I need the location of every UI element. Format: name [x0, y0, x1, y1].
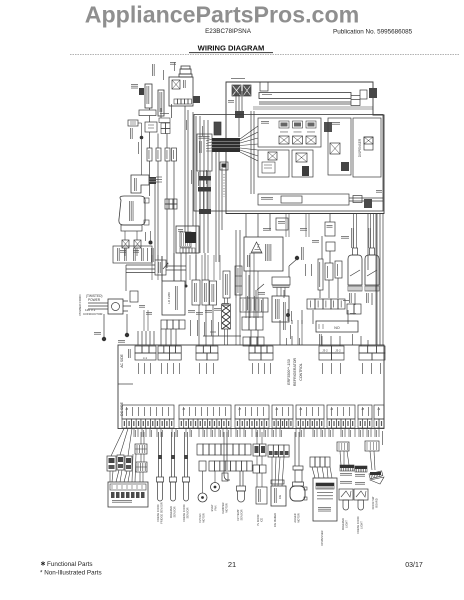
svg-text:FZ TEMP: FZ TEMP	[236, 509, 240, 520]
svg-text:LO FWD: LO FWD	[167, 291, 171, 303]
svg-text:AC SIDE: AC SIDE	[120, 353, 124, 367]
svg-text:DOOR SW: DOOR SW	[371, 496, 375, 509]
svg-text:LIGHT: LIGHT	[345, 520, 349, 528]
svg-text:NO: NO	[334, 326, 340, 330]
svg-text:LIGHT: LIGHT	[360, 521, 364, 529]
svg-text:* Non-Illustrated Parts: * Non-Illustrated Parts	[40, 570, 102, 577]
svg-text:03/17: 03/17	[405, 562, 423, 569]
svg-text:AppliancePartsPros.com: AppliancePartsPros.com	[85, 1, 359, 27]
svg-text:FREEZER: FREEZER	[341, 518, 345, 530]
svg-text:EVAP: EVAP	[210, 504, 214, 511]
svg-text:REFRIGERATOR: REFRIGERATOR	[293, 357, 297, 386]
svg-text:ICE MAKER: ICE MAKER	[273, 513, 277, 527]
svg-text:SENSOR: SENSOR	[186, 507, 190, 518]
svg-text:MOTOR: MOTOR	[202, 513, 206, 523]
svg-text:DAMPER: DAMPER	[221, 502, 225, 513]
svg-text:E23BC78IPSNA: E23BC78IPSNA	[205, 28, 252, 35]
svg-text:POWER CORD: POWER CORD	[78, 294, 82, 316]
svg-text:FRIDGE SENSOR: FRIDGE SENSOR	[160, 502, 164, 524]
svg-text:J3-2: J3-2	[322, 349, 328, 353]
svg-text:ICE: ICE	[278, 495, 282, 500]
svg-text:WIRING DIAGRAM: WIRING DIAGRAM	[198, 44, 265, 53]
svg-text:SENSOR: SENSOR	[240, 509, 244, 520]
svg-text:DISPENSER: DISPENSER	[358, 138, 362, 157]
svg-text:ERF3500**-1S0: ERF3500**-1S0	[287, 359, 291, 385]
svg-text:CONTROL: CONTROL	[299, 363, 303, 381]
svg-text:POWER: POWER	[88, 298, 101, 302]
svg-text:FREEZER: FREEZER	[169, 506, 173, 518]
svg-text:FRESH FOOD: FRESH FOOD	[156, 504, 160, 521]
svg-text:SENSOR: SENSOR	[173, 506, 177, 517]
svg-text:FZ FAN: FZ FAN	[198, 513, 202, 522]
svg-text:FRESH FOOD: FRESH FOOD	[356, 516, 360, 533]
svg-text:Functional Parts: Functional Parts	[47, 561, 93, 568]
svg-text:CONDUCTOR: CONDUCTOR	[83, 312, 103, 316]
svg-text:MOTOR: MOTOR	[225, 503, 229, 513]
svg-text:J-1: J-1	[143, 356, 147, 360]
svg-text:FRESH FOOD: FRESH FOOD	[182, 504, 186, 521]
svg-text:21: 21	[228, 560, 236, 569]
svg-text:MOTOR: MOTOR	[297, 513, 301, 523]
svg-text:J3-2: J3-2	[335, 349, 341, 353]
svg-text:DISPENSER: DISPENSER	[320, 530, 324, 545]
svg-text:ICE: ICE	[260, 518, 264, 523]
svg-text:BOARD: BOARD	[375, 498, 379, 507]
svg-text:FAN: FAN	[214, 505, 218, 510]
svg-text:AUGER: AUGER	[293, 513, 297, 522]
svg-text:Publication No. 5995686085: Publication No. 5995686085	[333, 29, 413, 36]
svg-text:IN DOOR: IN DOOR	[256, 514, 260, 525]
